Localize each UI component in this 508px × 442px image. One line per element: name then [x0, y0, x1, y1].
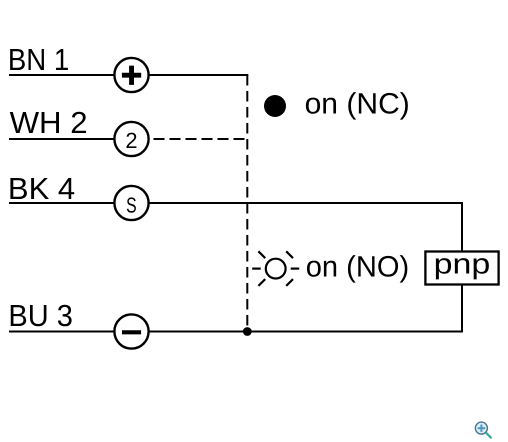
wire BU3 left segment [9, 331, 115, 333]
pin circle 2 (WH2) [114, 122, 148, 156]
svg-text:WH 2: WH 2 [10, 106, 88, 140]
svg-text:on (NC): on (NC) [305, 88, 410, 121]
pnp box [425, 252, 498, 285]
dashed vertical net wire [246, 75, 248, 332]
pin circle plus (BN1) [114, 58, 148, 92]
svg-text:BU 3: BU 3 [8, 299, 73, 333]
plus symbol [122, 66, 141, 85]
LED indicator filled dot (NC) [264, 95, 286, 117]
wire right vertical lower (pnp box to BU3) [461, 286, 463, 333]
wire BK4 left segment [9, 202, 115, 204]
zoom icon (magnifier) [475, 422, 491, 438]
wire BN1 right segment [149, 74, 249, 76]
svg-text:BN 1: BN 1 [8, 43, 69, 77]
dashed wire WH2 to node [154, 138, 248, 140]
svg-text:BK 4: BK 4 [8, 172, 75, 206]
minus symbol [122, 330, 141, 334]
svg-text:S: S [126, 192, 137, 217]
junction dot [243, 327, 252, 336]
svg-text:2: 2 [125, 128, 137, 153]
LED lamp symbol (NO) [252, 251, 299, 286]
wire WH2 left segment [9, 138, 115, 140]
pin circle S (BK4) [114, 186, 148, 220]
wire BN1 left segment [9, 74, 115, 76]
wire BU3 right segment [149, 331, 464, 333]
svg-text:on (NO): on (NO) [306, 250, 410, 283]
wire right vertical upper (BK4 to pnp box) [461, 202, 463, 252]
wire BK4 right segment [149, 202, 464, 204]
svg-text:pnp: pnp [434, 249, 491, 281]
pin circle minus (BU3) [114, 314, 148, 348]
